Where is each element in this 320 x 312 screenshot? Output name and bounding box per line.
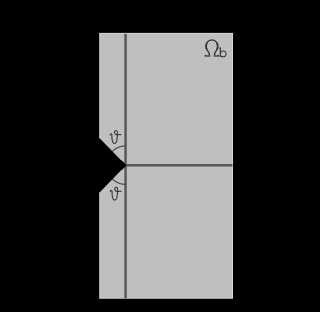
subscript b : bowl xyxy=(220,51,226,57)
domain Omega_b (gray region with re-entrant wedge notch) xyxy=(100,33,233,298)
Omega right foot xyxy=(214,55,219,56)
Omega bowl thick left side xyxy=(206,43,207,50)
angle label vartheta (lower) xyxy=(110,187,121,200)
light boundary fringe of domain (outer edges only) xyxy=(100,33,233,298)
horizontal line (slit from apex) xyxy=(126,164,233,166)
angle label vartheta (upper) xyxy=(110,131,121,144)
Omega left foot xyxy=(205,55,210,56)
upper angle arc xyxy=(112,146,126,151)
lower angle arc xyxy=(112,179,126,184)
vertical line (interface) xyxy=(124,34,126,298)
Omega bowl thick right side xyxy=(217,43,218,50)
region label Omega_b : Omega bowl xyxy=(206,40,218,55)
wedge apex tip (overlaps interface line) xyxy=(122,160,127,170)
subscript b : stem xyxy=(219,47,222,57)
